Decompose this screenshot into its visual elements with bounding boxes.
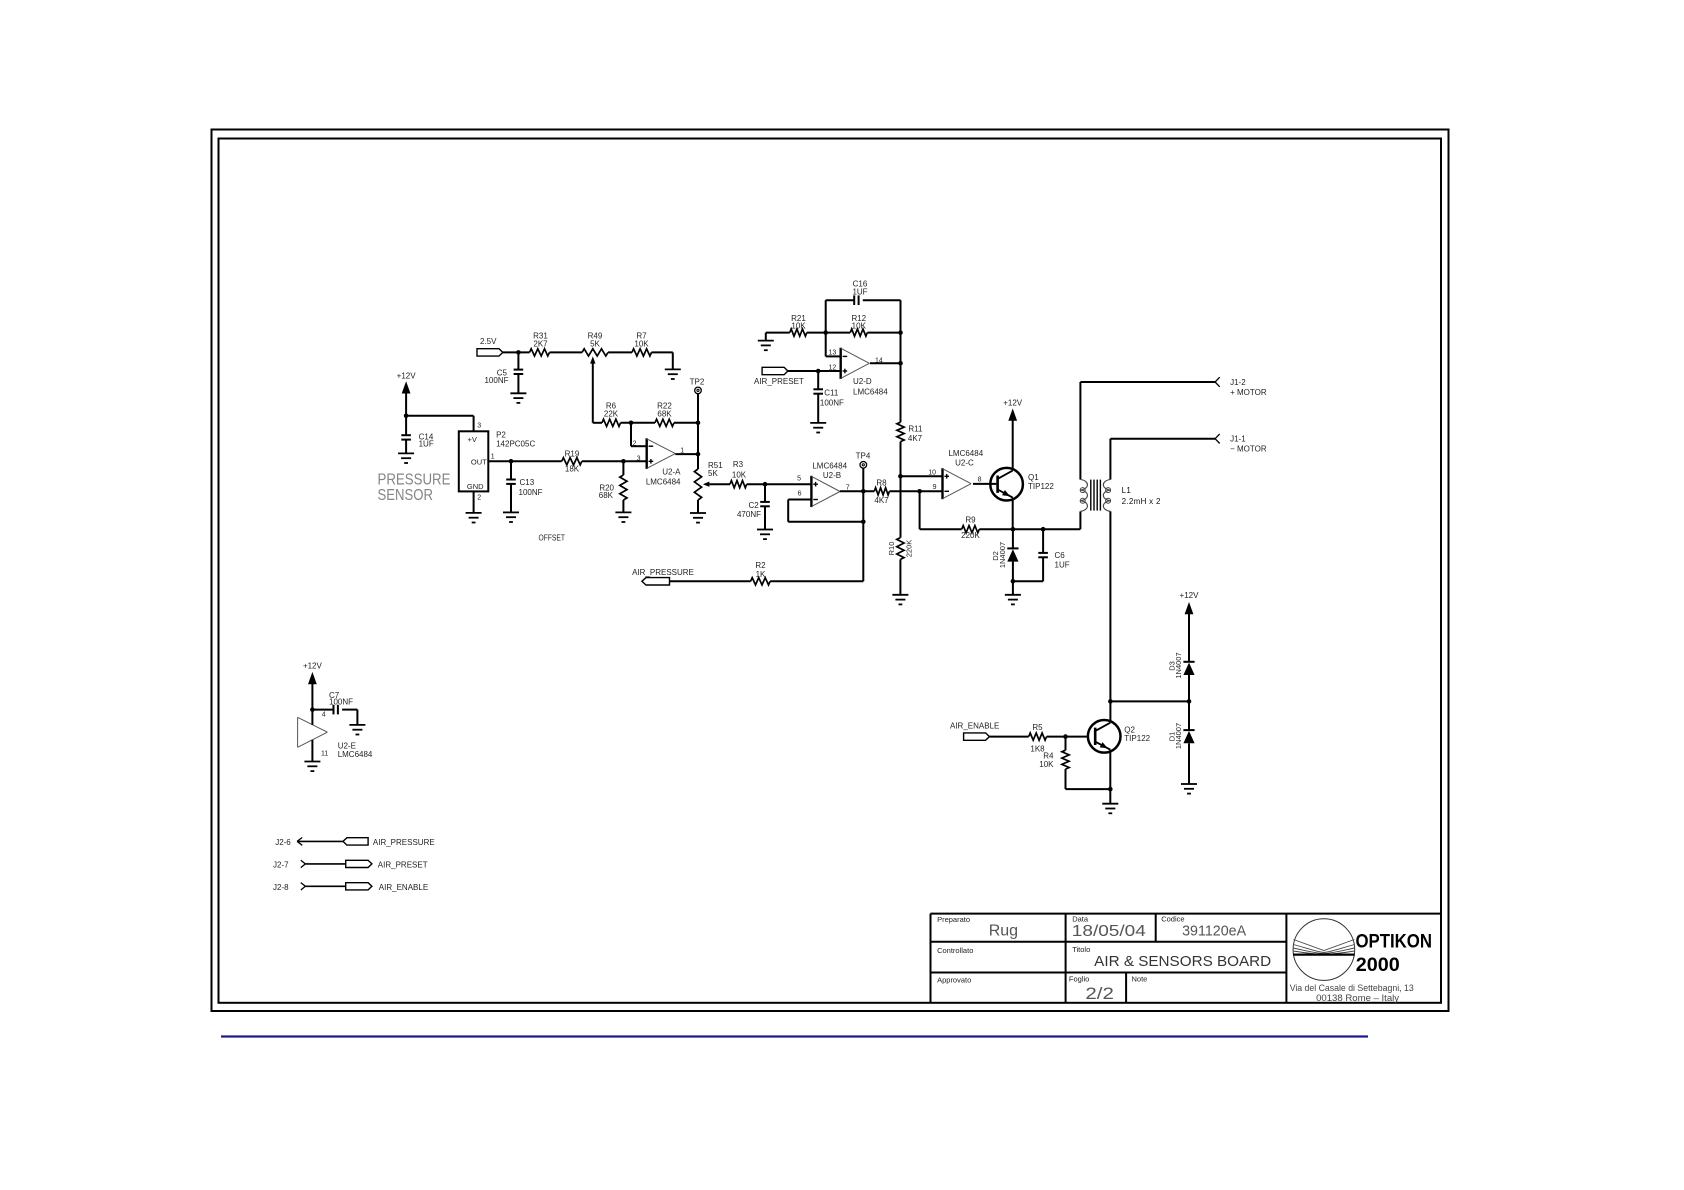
- resistor R21 10K: [790, 314, 807, 336]
- wire AIR_ENABLE to R5: [989, 736, 1028, 738]
- resistor R11 4K7: [897, 422, 923, 443]
- connector J1-2 + MOTOR: [1215, 377, 1267, 397]
- inductor L1 2.2mH x 2: [1080, 480, 1161, 512]
- wire D2 node to ground: [1012, 581, 1014, 595]
- junction R5 / R4: [1063, 734, 1068, 739]
- wire U2-C output to Q1 base: [973, 483, 996, 485]
- svg-text:R9: R9: [965, 516, 976, 525]
- svg-text:1N4007: 1N4007: [1174, 723, 1183, 749]
- svg-text:AIR_PRESET: AIR_PRESET: [754, 377, 804, 386]
- wire AIR_PRESET to U2-D pin 12: [788, 370, 841, 372]
- wire U2-A output to TP2 net: [675, 453, 698, 455]
- junction R12 / output rail: [898, 330, 903, 335]
- svg-text:Via del Casale di Settebagni,: Via del Casale di Settebagni, 13: [1290, 983, 1414, 993]
- svg-text:R10: R10: [887, 542, 896, 556]
- svg-text:C13: C13: [520, 478, 535, 487]
- svg-text:100NF: 100NF: [484, 376, 508, 385]
- wire R51 to ground: [697, 500, 699, 513]
- svg-text:+12V: +12V: [303, 662, 323, 671]
- wire U2-B output to R8: [840, 490, 874, 492]
- wire R49 wiper to R6: [593, 422, 602, 424]
- ground (C2): [757, 530, 773, 540]
- resistor R8 4K7: [874, 478, 889, 505]
- potentiometer R49 5K: [582, 331, 608, 423]
- svg-text:2.5V: 2.5V: [480, 337, 497, 346]
- resistor R3 10K: [730, 460, 747, 488]
- svg-text:AIR_PRESSURE: AIR_PRESSURE: [632, 568, 694, 577]
- test point TP4: [856, 452, 871, 469]
- junction R11 / pin 10: [898, 474, 903, 479]
- svg-text:2: 2: [477, 495, 481, 502]
- resistor R31 2K7: [530, 331, 550, 356]
- svg-text:1UF: 1UF: [852, 288, 867, 297]
- wire R11 to R10: [900, 442, 902, 538]
- svg-text:2000: 2000: [1356, 955, 1400, 976]
- junction R22 / TP2 vertical: [696, 421, 701, 426]
- svg-text:5K: 5K: [708, 469, 718, 478]
- svg-text:2K7: 2K7: [533, 339, 548, 348]
- junction U2-B output / TP4: [861, 489, 866, 494]
- svg-text:C11: C11: [824, 389, 839, 398]
- svg-text:1N4007: 1N4007: [998, 542, 1007, 568]
- resistor R2 1K: [751, 561, 771, 585]
- diode D3 1N4007: [1168, 652, 1195, 701]
- wire R8 to U2-C pin 9: [889, 490, 942, 492]
- ground (R10): [892, 595, 908, 605]
- svg-text:U2-B: U2-B: [823, 471, 841, 480]
- junction D3 / D1: [1187, 699, 1192, 704]
- logo OPTIKON 2000: [1290, 919, 1432, 1003]
- wire +12V rail to P2 pin 3: [406, 416, 481, 432]
- svg-text:LMC6484: LMC6484: [338, 750, 373, 759]
- capacitor C11: [813, 371, 844, 423]
- svg-text:L1: L1: [1122, 486, 1132, 495]
- svg-text:AIR_ENABLE: AIR_ENABLE: [379, 883, 428, 892]
- op-amp U2-A LMC6484: [633, 438, 685, 486]
- capacitor C13: [506, 461, 542, 512]
- svg-text:2/2: 2/2: [1085, 984, 1114, 1003]
- svg-text:220K: 220K: [905, 540, 914, 558]
- svg-text:J1-1: J1-1: [1230, 435, 1246, 444]
- wire Q2 emitter to ground: [1109, 750, 1111, 804]
- svg-text:J2-7: J2-7: [273, 860, 289, 869]
- ground (D2/C6): [1005, 595, 1021, 605]
- svg-text:100NF: 100NF: [329, 698, 353, 707]
- wire P2 OUT pin 1 to R19: [488, 454, 561, 462]
- wire Q1 collector up / L1 primary top / J1-2: [1080, 382, 1215, 529]
- wire R49 to R7: [608, 351, 632, 353]
- resistor R10 220K: [887, 538, 914, 560]
- node AIR_PRESSURE tag (R2): [632, 568, 694, 585]
- svg-text:U2-C: U2-C: [955, 458, 974, 467]
- svg-text:SENSOR: SENSOR: [378, 487, 434, 504]
- wire U2-E pin 11 to ground: [311, 740, 313, 762]
- svg-text:LMC6484: LMC6484: [812, 461, 847, 470]
- junction U2-A output / TP2 vertical: [696, 452, 701, 457]
- capacitor C7: [312, 691, 357, 725]
- junction R19 / R20: [621, 459, 626, 464]
- svg-text:U2-D: U2-D: [853, 377, 872, 386]
- svg-text:Preparato: Preparato: [937, 915, 970, 924]
- capacitor C6: [1013, 529, 1070, 581]
- svg-text:18/05/04: 18/05/04: [1072, 923, 1146, 940]
- ground (R20): [615, 512, 631, 522]
- wire P2 pin 2 to ground: [474, 491, 482, 513]
- svg-text:J2-8: J2-8: [273, 883, 289, 892]
- test point TP2: [690, 378, 705, 394]
- wire U2-B feedback pin 6: [788, 500, 863, 522]
- svg-text:TP4: TP4: [856, 452, 871, 461]
- svg-text:4K7: 4K7: [908, 434, 923, 443]
- svg-text:R19: R19: [565, 450, 580, 459]
- resistor R9 220K: [961, 516, 980, 540]
- label PRESSURE SENSOR: [378, 472, 451, 504]
- connector J1-1 - MOTOR: [1215, 434, 1267, 454]
- wire R22 to TP2 net: [674, 422, 698, 424]
- svg-text:AIR_ENABLE: AIR_ENABLE: [950, 721, 999, 730]
- wire U2-D pin 13: [826, 355, 841, 357]
- svg-text:+12V: +12V: [1180, 591, 1200, 600]
- svg-text:4K7: 4K7: [874, 496, 889, 505]
- svg-text:C2: C2: [748, 501, 759, 510]
- junction OUT / C13: [509, 459, 514, 464]
- wire R2 to TP4 vertical: [770, 580, 863, 582]
- wire R5 to Q2 base: [1047, 736, 1087, 738]
- svg-text:AIR & SENSORS BOARD: AIR & SENSORS BOARD: [1094, 953, 1271, 970]
- wire 2.5V to R31: [503, 351, 530, 353]
- svg-text:10K: 10K: [634, 339, 649, 348]
- ground (R7): [665, 369, 681, 379]
- svg-text:Codice: Codice: [1161, 915, 1184, 924]
- wire R31 to R49: [550, 351, 583, 353]
- ground (C13): [503, 512, 519, 522]
- svg-text:LMC6484: LMC6484: [948, 449, 983, 458]
- svg-text:OFFSET: OFFSET: [539, 534, 566, 543]
- ground (C14): [398, 453, 414, 463]
- svg-text:Controllato: Controllato: [937, 946, 973, 955]
- op-amp U2-C LMC6484: [928, 449, 983, 499]
- ground (C5): [510, 393, 526, 403]
- svg-text:5K: 5K: [590, 339, 600, 348]
- wire U2-A pin 2 from junction: [631, 423, 647, 446]
- junction C6 top: [1041, 527, 1046, 532]
- wire U2-E pin 4: [311, 710, 313, 725]
- wire R6 to R22: [621, 422, 656, 424]
- junction feedback / TP4 vertical: [861, 520, 866, 525]
- wire U2-C pin 10 from R11: [900, 475, 942, 477]
- diode D2 1N4007: [991, 529, 1019, 581]
- wire R9 branch: [920, 491, 962, 529]
- junction 2.5V / C5: [516, 350, 521, 355]
- svg-text:10K: 10K: [852, 321, 867, 330]
- op-amp U2-B LMC6484: [797, 461, 850, 507]
- svg-text:+12V: +12V: [1003, 399, 1023, 408]
- svg-text:OUT: OUT: [471, 458, 487, 467]
- svg-text:1K: 1K: [756, 570, 766, 579]
- svg-text:220K: 220K: [961, 531, 980, 540]
- svg-text:2.2mH x 2: 2.2mH x 2: [1122, 497, 1161, 506]
- svg-text:TP2: TP2: [690, 378, 705, 387]
- svg-text:10K: 10K: [791, 321, 806, 330]
- junction +12V / C14 / P2: [404, 414, 409, 419]
- svg-text:22K: 22K: [604, 410, 619, 419]
- junction L1 / D-string / Q2 collector: [1108, 699, 1113, 704]
- svg-text:11: 11: [321, 751, 328, 758]
- svg-text:C6: C6: [1055, 551, 1066, 560]
- wire R10 to ground: [899, 559, 901, 594]
- svg-text:391120eA: 391120eA: [1182, 923, 1246, 940]
- svg-text:R8: R8: [876, 478, 887, 487]
- junction R21 / R12 / U2-D pin 13: [823, 330, 828, 335]
- connector J2-7 AIR_PRESET: [273, 860, 428, 869]
- junction R4 / Q2 emitter: [1108, 787, 1113, 792]
- svg-text:100NF: 100NF: [519, 488, 543, 497]
- resistor R12 10K: [850, 314, 867, 336]
- power +12V (U2-E): [303, 662, 323, 710]
- wire R19 to U2-A pin 3: [582, 460, 647, 462]
- junction D2 / C6 bottom: [1011, 579, 1016, 584]
- svg-text:AIR_PRESSURE: AIR_PRESSURE: [373, 838, 435, 847]
- junction +12V / C7 / U2-E pin 4: [310, 707, 315, 712]
- ground (C11): [810, 423, 826, 433]
- junction R3 / C2: [763, 482, 768, 487]
- transistor Q2 TIP122: [1088, 720, 1151, 753]
- svg-text:+V: +V: [468, 435, 477, 444]
- ground (P2 pin 2): [466, 513, 482, 523]
- svg-text:+ MOTOR: + MOTOR: [1230, 388, 1267, 397]
- svg-text:00138 Rome – Italy: 00138 Rome – Italy: [1316, 993, 1399, 1003]
- wire AIR_PRESSURE to R2: [670, 580, 751, 582]
- svg-text:Foglio: Foglio: [1069, 975, 1089, 984]
- svg-text:GND: GND: [467, 482, 484, 491]
- wire R3 to U2-B pin 5: [747, 483, 812, 485]
- wire diode node horizontal: [1110, 700, 1189, 702]
- svg-text:18K: 18K: [565, 465, 580, 474]
- svg-text:4: 4: [322, 711, 326, 718]
- ground (R21): [758, 341, 774, 351]
- svg-text:Approvato: Approvato: [937, 976, 971, 985]
- ground (D1): [1181, 784, 1197, 794]
- ground (R51): [690, 513, 706, 523]
- svg-text:1UF: 1UF: [419, 440, 434, 449]
- wire output rail top: [900, 300, 902, 363]
- power +12V (diode string): [1180, 591, 1200, 662]
- label OFFSET: [539, 534, 566, 543]
- node AIR_ENABLE tag: [950, 721, 999, 740]
- svg-text:LMC6484: LMC6484: [853, 388, 888, 397]
- resistor R5 1K8: [1029, 723, 1047, 754]
- pressure sensor P2 142PC05C: [459, 431, 536, 492]
- wire R21 ground stub: [766, 333, 790, 341]
- wire L1 secondary bottom to diode node: [1109, 511, 1111, 722]
- resistor R19 18K: [562, 450, 582, 474]
- op-amp U2-E LMC6484: [298, 711, 373, 759]
- capacitor C2: [737, 484, 770, 529]
- svg-text:9: 9: [933, 484, 937, 491]
- svg-text:10K: 10K: [1039, 760, 1054, 769]
- resistor R6 22K: [602, 402, 621, 427]
- resistor R7 10K: [632, 331, 652, 356]
- wire U2-D output rail down to R11: [900, 363, 902, 422]
- ground (U2-E pin 11): [304, 762, 320, 772]
- power +12V (pressure sensor rail): [397, 371, 417, 416]
- svg-text:R3: R3: [733, 460, 744, 469]
- junction AIR_PRESET / C11: [816, 369, 821, 374]
- svg-text:2: 2: [633, 441, 637, 448]
- svg-text:68K: 68K: [599, 491, 614, 500]
- svg-text:Rug: Rug: [989, 923, 1018, 940]
- wire R7 to ground: [652, 352, 673, 369]
- capacitor C14: [401, 416, 434, 454]
- svg-text:LMC6484: LMC6484: [646, 478, 681, 487]
- svg-text:P2: P2: [496, 431, 506, 440]
- wire C16 left down to R21/R12 junction: [825, 300, 827, 356]
- svg-text:J1-2: J1-2: [1230, 378, 1246, 387]
- title block: [931, 914, 1442, 1003]
- wire R51 wiper to R3: [709, 483, 730, 485]
- ground (Q2 emitter): [1102, 804, 1118, 814]
- resistor R4 10K: [1039, 737, 1110, 790]
- resistor R22 68K: [655, 402, 674, 427]
- svg-text:3: 3: [477, 423, 481, 430]
- wire R12 to output rail: [867, 332, 900, 334]
- wire R21 to junction to R12: [807, 332, 851, 334]
- svg-text:13: 13: [829, 350, 837, 357]
- svg-text:U2-A: U2-A: [662, 468, 681, 477]
- wire TP2 vertical net: [697, 394, 699, 469]
- svg-text:R5: R5: [1032, 723, 1043, 732]
- svg-text:OPTIKON: OPTIKON: [1356, 931, 1433, 952]
- svg-text:5: 5: [797, 476, 801, 483]
- svg-text:8: 8: [978, 477, 982, 484]
- wire TP4 vertical to R2: [862, 468, 864, 581]
- connector J2-6 AIR_PRESSURE: [275, 838, 434, 848]
- junction R8 / R9 corner: [917, 489, 922, 494]
- wire L1 secondary top to J1-1: [1110, 439, 1215, 480]
- junction U2-D output / rail: [898, 361, 903, 366]
- resistor R20 68K: [599, 461, 627, 512]
- ground (C7): [349, 725, 365, 735]
- junction Q1 emitter / R9 / D2: [1011, 527, 1016, 532]
- svg-text:TIP122: TIP122: [1028, 482, 1054, 491]
- capacitor C16: [826, 280, 901, 306]
- svg-text:AIR_PRESET: AIR_PRESET: [378, 861, 428, 870]
- svg-text:TIP122: TIP122: [1124, 734, 1150, 743]
- svg-text:− MOTOR: − MOTOR: [1230, 445, 1267, 454]
- op-amp U2-D LMC6484: [829, 348, 889, 397]
- svg-text:10K: 10K: [732, 470, 747, 479]
- svg-text:R2: R2: [755, 561, 766, 570]
- svg-text:Titolo: Titolo: [1072, 945, 1090, 954]
- svg-text:6: 6: [798, 491, 802, 498]
- node 2.5V input tag: [477, 337, 503, 356]
- wire Q1 emitter to R9/D2 node: [1012, 498, 1014, 530]
- svg-text:J2-6: J2-6: [275, 838, 291, 847]
- wire R9 to Q1 emitter node: [979, 528, 1080, 530]
- junction R6 / R22 / U2-A pin 2: [629, 421, 634, 426]
- svg-text:R11: R11: [908, 425, 923, 434]
- svg-text:470NF: 470NF: [737, 510, 761, 519]
- svg-text:+12V: +12V: [397, 371, 417, 380]
- transistor Q1 TIP122: [990, 468, 1054, 501]
- svg-text:68K: 68K: [657, 410, 672, 419]
- svg-text:1: 1: [491, 454, 495, 461]
- diode D1 1N4007: [1168, 701, 1195, 784]
- svg-text:Note: Note: [1132, 975, 1148, 984]
- svg-text:1N4007: 1N4007: [1174, 652, 1183, 678]
- wire U2-D output pin 14: [870, 362, 901, 364]
- capacitor C5: [484, 352, 523, 393]
- connector J2-8 AIR_ENABLE: [273, 883, 428, 892]
- node AIR_PRESET tag: [754, 367, 804, 386]
- potentiometer R51 5K: [694, 461, 723, 500]
- power +12V (Q1 collector): [1003, 399, 1023, 468]
- svg-text:142PC05C: 142PC05C: [496, 440, 535, 449]
- svg-text:100NF: 100NF: [820, 398, 844, 407]
- svg-text:1UF: 1UF: [1055, 561, 1070, 570]
